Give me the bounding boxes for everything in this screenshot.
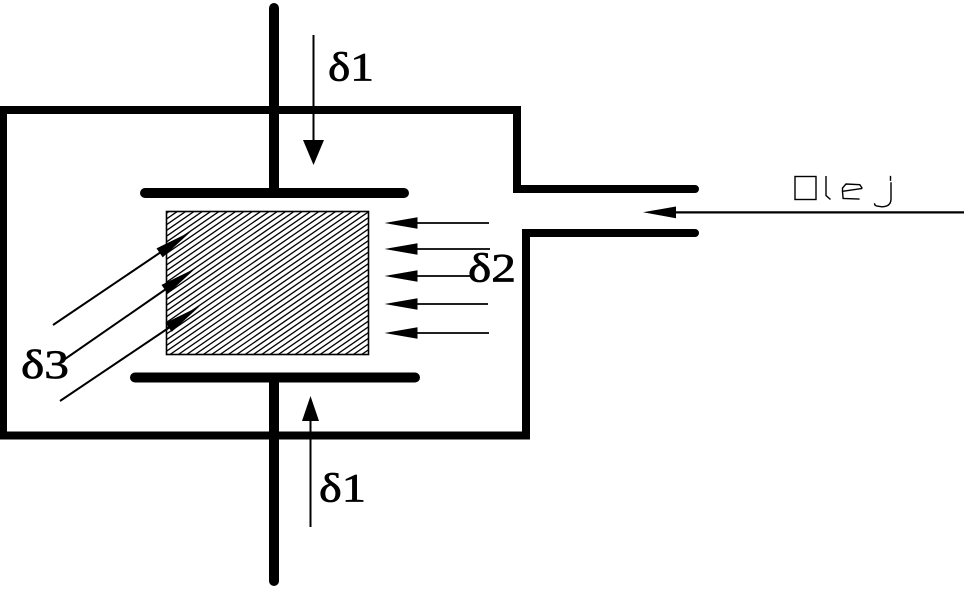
δ2 arrow 1 — [385, 217, 490, 228]
arrow δ1 top (downward) — [303, 35, 324, 165]
label δ2 — [468, 246, 516, 291]
housing outline upper: top wall, right upper wall, inlet channel top — [0, 110, 695, 189]
oil inlet arrow (long, pointing left into channel) — [643, 207, 964, 219]
δ2 arrow 4 — [385, 298, 489, 309]
δ3 arrow 1 (diagonal) — [53, 232, 191, 326]
shaft upper segment — [269, 8, 279, 193]
δ3 arrow 3 (diagonal) — [60, 306, 200, 401]
rotor block (hatched) — [167, 74, 369, 495]
text Olej: e — [843, 184, 863, 199]
top flange bar — [145, 188, 404, 198]
label δ3 — [21, 342, 69, 387]
text Olej: j — [875, 176, 891, 207]
δ2 arrow 2 — [385, 243, 491, 254]
svg-text:δ1: δ1 — [328, 45, 374, 90]
shaft lower segment — [269, 378, 279, 581]
text Olej (CAD stroke font): O square — [795, 177, 816, 200]
text Olej: l — [826, 176, 831, 200]
label δ1 top — [328, 45, 374, 90]
svg-text:δ2: δ2 — [468, 246, 516, 291]
δ3 arrow 2 (diagonal) — [65, 268, 196, 359]
bottom flange bar — [135, 373, 415, 383]
svg-text:δ1: δ1 — [319, 466, 366, 511]
housing outline lower: inlet channel bottom, right lower wall, bottom wall — [0, 233, 695, 436]
δ2 arrow 5 — [385, 327, 490, 338]
svg-text:δ3: δ3 — [21, 342, 69, 387]
label δ1 bottom — [319, 466, 366, 511]
arrow δ1 bottom (upward) — [302, 396, 319, 527]
housing left wall — [0, 110, 7, 436]
δ2 arrow 3 — [385, 270, 474, 281]
